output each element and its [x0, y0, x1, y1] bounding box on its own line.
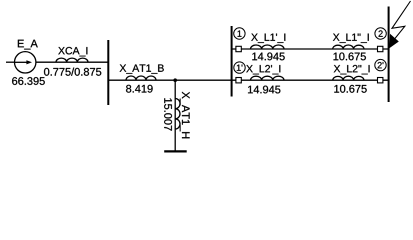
inductor X_AT1_B [126, 76, 156, 80]
value 10.675 top [334, 53, 366, 61]
inductor X_L2'_I [251, 76, 285, 80]
value 14.945 top [252, 53, 284, 61]
wire down to X_AT1_H [174, 80, 176, 151]
value 15.007 (rotated) [164, 98, 172, 130]
inductor X_AT1_H label (rotated) [180, 92, 190, 139]
inductor X_L2''_I label [334, 65, 370, 74]
wire bottom branch [232, 79, 389, 81]
bus 1 [107, 40, 109, 105]
terminal square bottom-left [236, 78, 241, 83]
node 2 circle [375, 28, 386, 39]
source arrow [15, 61, 28, 63]
inductor XCA_I label [58, 47, 87, 56]
source E_A circle [15, 52, 36, 73]
inductor X_L1''_I [333, 45, 364, 49]
inductor X_L1'_I label [251, 34, 285, 43]
wire bus1 to X_AT1_B and on to bus2 [108, 79, 231, 81]
terminal square top-left [236, 46, 241, 51]
inductor X_L1'_I [251, 45, 285, 49]
node E_A label [18, 40, 38, 50]
value 0.775/0.875 [44, 68, 101, 76]
inductor XCA_I [56, 58, 88, 62]
inductor X_L2'_I label [246, 65, 280, 74]
wire source to XCA_I [36, 61, 108, 63]
terminal square top-right [378, 46, 383, 51]
fault lightning bolt [391, 1, 411, 44]
node 1' circle [234, 62, 245, 73]
inductor X_L2''_I [333, 76, 364, 80]
value 10.675 bottom [334, 85, 366, 93]
node 1 circle [234, 28, 245, 39]
value 8.419 [126, 85, 153, 93]
bus 3 [388, 7, 390, 103]
junction node [173, 78, 177, 82]
node 2' circle [375, 59, 386, 70]
wire stub left of source [6, 61, 15, 63]
wire top branch [232, 48, 389, 50]
bus 2 [231, 26, 233, 97]
inductor X_AT1_B label [120, 64, 164, 73]
ground [164, 150, 187, 152]
value 66.395 [12, 77, 45, 85]
inductor X_L1''_I label [333, 34, 369, 43]
terminal square bottom-right [378, 78, 383, 83]
value 14.945 bottom [248, 86, 280, 94]
inductor X_AT1_H (vertical, arcs bulge right) [175, 99, 180, 130]
